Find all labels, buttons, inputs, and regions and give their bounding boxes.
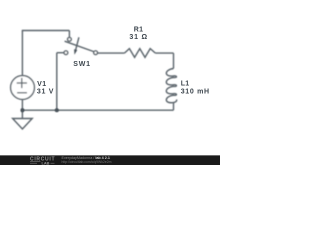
inductor L1 coil — [166, 69, 176, 103]
svg-text:L1: L1 — [181, 81, 190, 88]
resistor R1 zigzag — [124, 49, 155, 58]
svg-text:LAB: LAB — [42, 160, 50, 165]
junction node at V1/rail — [20, 108, 24, 112]
wire drop to SW1 common — [68, 31, 70, 38]
wire SW1 right to R1 — [98, 52, 125, 54]
wire right vertical to L1 — [173, 53, 175, 68]
svg-text:R1: R1 — [134, 26, 144, 33]
logo circuit lines — [30, 162, 55, 164]
ground symbol triangle — [13, 119, 33, 130]
watermark bar — [0, 155, 220, 165]
switch SW1 blade — [65, 41, 94, 51]
svg-text:310 mH: 310 mH — [181, 89, 210, 96]
wire left-middle vertical down to rail — [56, 53, 58, 110]
watermark bar soft top edge — [0, 154, 220, 156]
voltage source V1 circle — [11, 76, 35, 100]
wire V1 bottom to rail — [21, 99, 23, 110]
svg-text:31 Ω: 31 Ω — [129, 34, 148, 41]
junction node at SW1 branch/rail — [55, 108, 59, 112]
wire R1 to top-right corner — [155, 52, 173, 54]
wire L1 bottom to rail — [173, 103, 175, 110]
svg-text:http://circuitlab.com/c/q9Wk2e: http://circuitlab.com/c/q9Wk2e2m — [62, 160, 112, 164]
svg-text:31 V: 31 V — [37, 88, 54, 95]
wire stub from SW1 left terminal — [57, 52, 64, 54]
switch SW1 right terminal — [94, 51, 98, 55]
wire left vertical from V1 top — [21, 31, 23, 76]
svg-text:SW1: SW1 — [73, 61, 91, 68]
wire ground drop — [21, 110, 23, 118]
wire top horizontal — [22, 30, 70, 32]
switch SW1 left terminal — [64, 51, 68, 55]
switch SW1 actuator arrow — [74, 37, 79, 54]
wire bottom rail — [22, 109, 173, 111]
V1 minus sign — [17, 92, 27, 94]
V1 plus sign — [17, 78, 27, 88]
switch SW1 top terminal — [68, 37, 72, 41]
svg-text:V1: V1 — [37, 81, 47, 88]
